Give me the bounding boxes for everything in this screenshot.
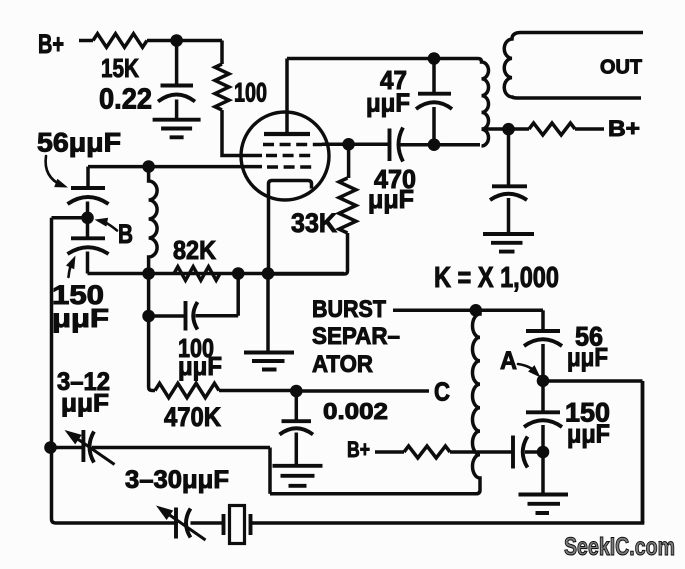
capacitor 47uuF plates: [416, 94, 452, 109]
svg-text:OUT: OUT: [600, 57, 642, 79]
junction node (47uuF bottom / 470uuF): [428, 138, 441, 151]
wire 100uuF to 82K right node: [196, 274, 239, 316]
arrow B to node: [100, 221, 117, 231]
junction node (tank tap / B+ / bypass): [502, 123, 515, 136]
svg-text:μμF: μμF: [178, 351, 222, 381]
svg-text:BURST: BURST: [312, 296, 386, 323]
svg-text:K = X 1,000: K = X 1,000: [434, 262, 559, 294]
wire resistor to B+ label: [575, 127, 604, 131]
wire to node B: [86, 202, 90, 219]
wire cathode to ground: [266, 274, 270, 352]
tube V1 grid row 2 (dashed): [266, 154, 314, 157]
wire 33K to cathode bus: [268, 233, 348, 274]
svg-text:μμF: μμF: [366, 88, 410, 118]
wire burst label to coil top: [393, 309, 543, 313]
inductor burst separator coil: [270, 310, 480, 494]
junction node (left rail / trimmer): [44, 441, 57, 454]
wire 470uuF to node: [401, 143, 435, 147]
wire control grid run: [88, 165, 262, 169]
svg-text:470K: 470K: [164, 402, 221, 432]
tube V1 envelope: [241, 112, 329, 200]
wire 470K to C node: [219, 389, 296, 393]
ground (below 0.002): [273, 466, 323, 486]
svg-text:3–30μμF: 3–30μμF: [125, 466, 229, 494]
tube V1 plate lead: [285, 59, 289, 135]
arrow 56uuF to capacitor: [46, 156, 62, 186]
svg-text:C: C: [434, 377, 450, 407]
resistor 33K: [339, 178, 356, 233]
capacitor 0.22 plates: [158, 86, 195, 102]
svg-text:μμF: μμF: [368, 184, 414, 214]
bottom rail right: [251, 521, 645, 525]
capacitor coupling plates (burst): [513, 436, 528, 469]
svg-text:B+: B+: [347, 437, 370, 462]
trimmer capacitor 3-12uuF plates: [83, 430, 94, 463]
ground (right chain): [519, 495, 569, 514]
wire grid row1 to 470uuF: [322, 143, 390, 147]
svg-text:0.002: 0.002: [323, 398, 388, 424]
capacitor 100uuF plates: [186, 301, 198, 331]
ground (cathode): [244, 353, 294, 370]
right rail (node A to bottom rail): [641, 381, 645, 523]
tube V1 grid row 3 (dashed): [267, 165, 314, 168]
junction node (grid / left coil top): [142, 160, 155, 173]
junction node (cathode): [262, 267, 275, 280]
wire node B to left rail: [52, 216, 88, 220]
wire plate to tank coil (top run): [287, 57, 478, 61]
resistor 82K: [174, 267, 220, 281]
crystal Y1: [224, 514, 251, 535]
wire node down left branch: [147, 274, 151, 317]
wire 15K to 100-ohm branch: [147, 39, 222, 43]
svg-text:μμF: μμF: [61, 390, 109, 418]
svg-text:B+: B+: [608, 116, 640, 141]
wire 0.002 to ground: [295, 433, 299, 465]
junction node (150uuF / coupling / ground): [537, 446, 550, 459]
svg-text:A: A: [500, 347, 517, 375]
svg-text:56μμF: 56μμF: [37, 128, 121, 158]
trimmer 3-12uuF wire right: [92, 446, 270, 450]
trimmer 3-30uuF arrow: [166, 513, 206, 541]
junction node (82K right / 100uuF): [232, 267, 245, 280]
inductor left grid coil: [149, 167, 158, 274]
svg-text:μμF: μμF: [52, 303, 109, 333]
junction node (15K / 0.22 / 100): [170, 34, 183, 47]
capacitor 56uuF right plates: [524, 331, 562, 346]
junction node A: [537, 375, 550, 388]
svg-text:μμF: μμF: [567, 342, 608, 372]
resistor 470K: [155, 383, 219, 397]
wire resistor to coupling cap: [450, 450, 513, 454]
capacitor output bypass lead: [507, 129, 511, 186]
bottom rail left: [52, 448, 177, 524]
capacitor 56uuF left plates: [68, 188, 109, 204]
svg-text:SeekIC.com: SeekIC.com: [564, 533, 675, 561]
wire tap to 470K: [149, 316, 155, 391]
capacitor 0.002 lead: [295, 391, 299, 421]
wire corner to 56uuF right: [541, 310, 545, 330]
capacitor output bypass plates: [490, 186, 527, 200]
capacitor 470uuF plates: [390, 128, 404, 162]
ground (below bypass): [483, 234, 534, 252]
wire tank node to resistor: [509, 127, 530, 131]
svg-text:15K: 15K: [101, 53, 139, 83]
wire bypass to ground: [507, 198, 511, 233]
capacitor 56uuF left lead: [86, 167, 90, 188]
wire 100 to tube screen grid: [222, 110, 262, 156]
junction node B: [81, 212, 94, 225]
resistor 100 (screen dropping): [215, 64, 229, 110]
wire to 100uuF: [149, 314, 186, 318]
arrow A to node: [518, 364, 537, 373]
trimmer 3-12uuF wire left: [52, 446, 84, 450]
svg-text:μμF: μμF: [567, 419, 610, 449]
trimmer 3-12uuF arrow: [74, 437, 115, 465]
svg-text:82K: 82K: [173, 235, 216, 265]
junction node (47uuF top): [428, 52, 441, 65]
wire elbow to 100-ohm resistor: [220, 41, 224, 65]
tube V1 cathode: [269, 181, 312, 274]
capacitor 150uuF left plates: [68, 238, 109, 254]
capacitor 47uuF leads: [432, 59, 436, 146]
junction node (tube output): [342, 138, 355, 151]
left rail (node B down to trimmer node): [50, 218, 54, 448]
tube V1 plate: [264, 132, 310, 136]
tube V1 grid row 1 (dashed): [263, 143, 322, 146]
cathode bus wire: [88, 272, 345, 276]
wire B+ to resistor: [375, 450, 404, 454]
capacitor 0.002 plates: [280, 421, 314, 434]
svg-text:33K: 33K: [291, 208, 337, 238]
inductor primary tank coil: [478, 59, 489, 147]
wire coupling cap to node: [525, 450, 543, 454]
resistor B+ feed (right): [529, 123, 575, 135]
trimmer capacitor 3-30uuF plates: [176, 508, 191, 539]
junction node (100uuF tap): [142, 310, 155, 323]
wire 0.22 to ground: [175, 100, 179, 119]
svg-text:100: 100: [234, 78, 267, 108]
svg-text:SEPAR–: SEPAR–: [312, 323, 400, 350]
capacitor 150uuF left lead: [86, 218, 90, 238]
wire coil tap to B+ node: [482, 127, 509, 131]
junction node (coil bottom / 82K left): [142, 267, 155, 280]
wire B+ to 15K: [79, 39, 93, 43]
arrow 150uuF label to capacitor: [69, 260, 74, 277]
ground (below 0.22): [153, 120, 201, 138]
capacitor 0.22 lead: [175, 41, 179, 86]
inductor output secondary with OUT leads: [504, 33, 643, 99]
wire trimmer to crystal: [191, 521, 224, 525]
capacitor 150uuF right plates: [524, 412, 562, 427]
wire node to ground (right): [541, 452, 545, 493]
wire C node to C label: [296, 389, 429, 393]
wire burst coil bottom riser: [268, 448, 272, 494]
svg-text:B: B: [118, 219, 133, 249]
svg-text:ATOR: ATOR: [312, 351, 373, 378]
svg-text:0.22: 0.22: [99, 84, 152, 116]
junction node (0.002 / C): [290, 385, 303, 398]
wire 56uuF right to node A: [541, 344, 545, 381]
wire 470uuF node to coil bottom: [434, 143, 480, 147]
wire node A to right rail: [543, 379, 643, 383]
resistor 33K branch wire: [347, 144, 351, 178]
junction node (burst coil top): [470, 304, 483, 317]
wire 150uuF left to cathode bus: [86, 252, 90, 274]
resistor B+ injection: [404, 446, 450, 458]
capacitor 150uuF right lead: [541, 380, 545, 412]
wire 150uuF right to ground node: [541, 425, 545, 452]
svg-text:B+: B+: [38, 29, 64, 59]
resistor 15K: [93, 34, 147, 48]
